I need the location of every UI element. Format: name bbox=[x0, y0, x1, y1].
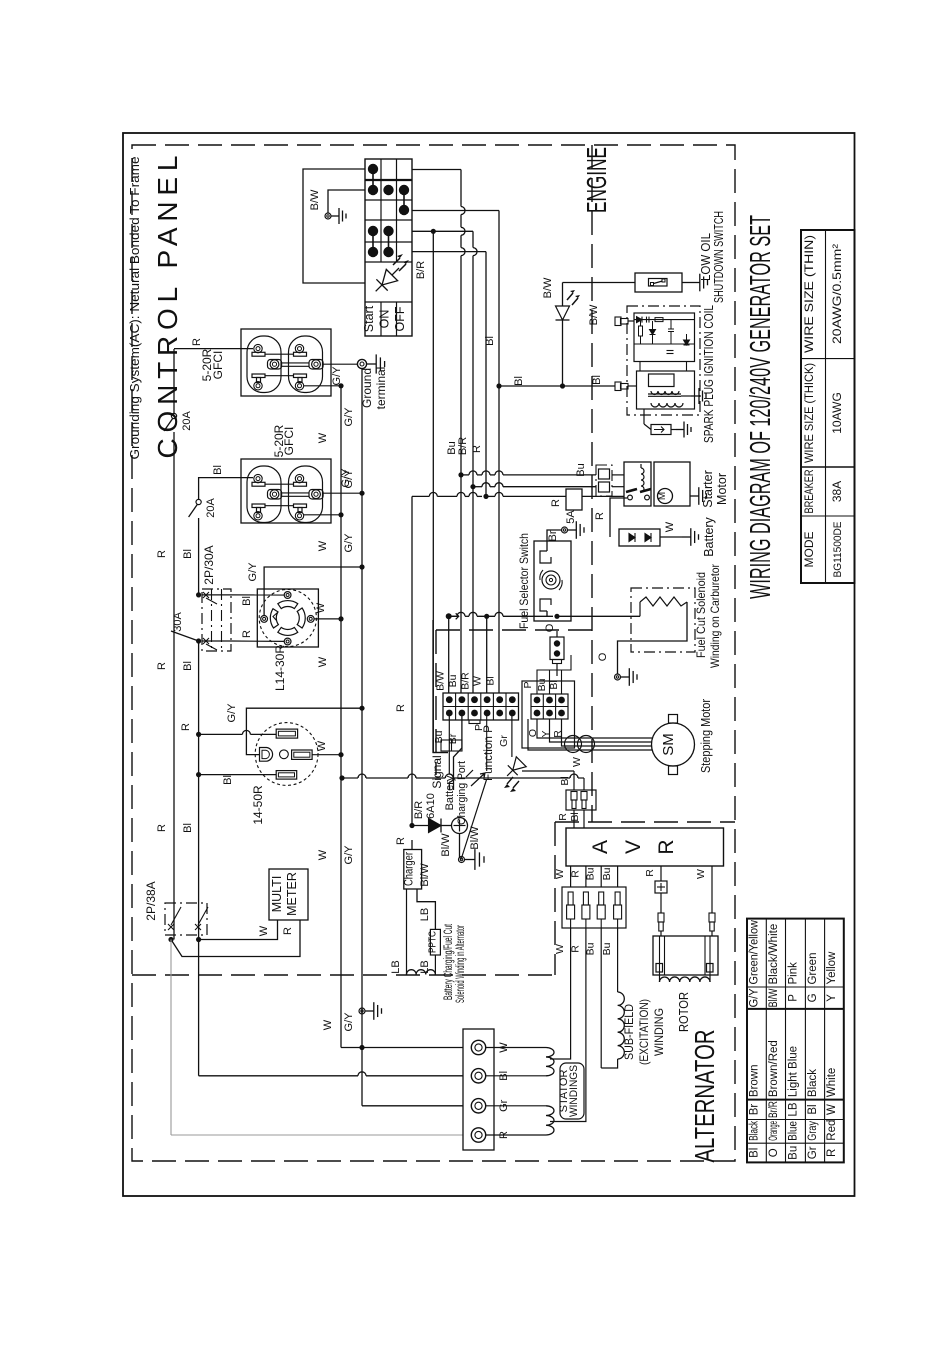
svg-text:Function P: Function P bbox=[481, 725, 495, 781]
svg-text:OFF: OFF bbox=[393, 306, 407, 331]
alternator dashed separator bbox=[132, 974, 555, 976]
svg-text:R: R bbox=[471, 445, 483, 453]
svg-text:R: R bbox=[550, 499, 562, 507]
B/W wire down to connector bbox=[448, 616, 450, 693]
sheet frame bbox=[123, 133, 855, 1196]
coil core ground bbox=[681, 395, 691, 397]
svg-text:W: W bbox=[472, 676, 484, 686]
svg-text:LOW OIL: LOW OIL bbox=[699, 233, 713, 281]
svg-text:Green: Green bbox=[807, 953, 819, 985]
svg-text:GFCI: GFCI bbox=[282, 427, 296, 456]
svg-text:Y: Y bbox=[540, 730, 552, 737]
svg-text:WIRING DIAGRAM OF 120/240V GEN: WIRING DIAGRAM OF 120/240V GENERATOR SET bbox=[745, 215, 777, 599]
svg-text:R: R bbox=[180, 723, 192, 731]
switch B/W ground stub bbox=[328, 190, 365, 213]
receptacle 14-50R bbox=[255, 723, 318, 786]
starter connector bbox=[596, 465, 612, 496]
svg-text:MODE: MODE bbox=[802, 532, 816, 568]
CDI unit box bbox=[634, 313, 695, 362]
svg-text:LB: LB bbox=[787, 1102, 799, 1116]
R wire to charger bbox=[411, 496, 413, 825]
sub-field winding bbox=[600, 928, 602, 1068]
svg-text:W: W bbox=[317, 540, 329, 551]
14-50R neutral bbox=[312, 754, 341, 756]
svg-text:Battery Charging/Fuel Cut: Battery Charging/Fuel Cut bbox=[443, 924, 455, 1000]
svg-text:Black/White: Black/White bbox=[768, 924, 780, 985]
svg-text:G/Y: G/Y bbox=[247, 562, 259, 582]
Bl bus wire bbox=[198, 477, 200, 500]
svg-text:G/Y: G/Y bbox=[343, 533, 355, 553]
svg-text:Bu: Bu bbox=[585, 867, 597, 880]
svg-text:Bu: Bu bbox=[536, 678, 548, 691]
svg-text:5A: 5A bbox=[565, 510, 577, 524]
svg-text:2P/30A: 2P/30A bbox=[202, 545, 216, 584]
svg-text:Battery: Battery bbox=[444, 775, 456, 810]
switch contacts bbox=[368, 164, 378, 174]
function P arrow bbox=[486, 716, 488, 771]
L14-30R blade slots bbox=[278, 601, 298, 609]
svg-text:W: W bbox=[554, 869, 566, 879]
svg-text:Charging Port: Charging Port bbox=[456, 761, 468, 825]
B/R wire from switch bbox=[412, 230, 429, 232]
R bus wire bbox=[173, 349, 175, 413]
AVR box bbox=[566, 828, 724, 866]
fuse 5A bbox=[566, 489, 582, 510]
svg-text:White: White bbox=[826, 1068, 838, 1097]
svg-text:SPARK PLUG IGNITION COIL: SPARK PLUG IGNITION COIL bbox=[702, 305, 716, 443]
14-50R ground wire bbox=[246, 708, 362, 754]
coil input connectors bbox=[615, 317, 621, 326]
svg-text:Grounding System(AC): Netural: Grounding System(AC): Netural Bonded To … bbox=[127, 157, 142, 460]
signal bracket bbox=[433, 620, 448, 753]
svg-text:Bl/W: Bl/W bbox=[440, 833, 452, 857]
meter wires bbox=[199, 920, 278, 940]
svg-text:R: R bbox=[156, 824, 168, 832]
rotor coil bbox=[659, 975, 661, 982]
svg-text:20A: 20A bbox=[205, 498, 217, 518]
svg-text:Stepping Motor: Stepping Motor bbox=[699, 699, 713, 773]
svg-text:20A: 20A bbox=[181, 411, 193, 431]
svg-text:Solenoid Winding in Alternator: Solenoid Winding in Alternator bbox=[455, 925, 467, 1003]
CDI internals bbox=[634, 319, 695, 321]
stator windings label bbox=[560, 1063, 584, 1119]
charger bbox=[404, 850, 422, 890]
AVR output connector bbox=[562, 887, 626, 928]
selector knob bbox=[542, 571, 560, 589]
selector contacts bbox=[540, 551, 551, 563]
svg-text:Bl: Bl bbox=[182, 549, 194, 559]
svg-text:W: W bbox=[695, 869, 707, 879]
svg-text:METER: METER bbox=[285, 872, 299, 916]
svg-text:Charger: Charger bbox=[404, 852, 416, 886]
stepping motor wire bundle bbox=[537, 719, 652, 738]
stator terminal block bbox=[463, 1029, 494, 1150]
svg-text:Br/R: Br/R bbox=[768, 1101, 780, 1118]
svg-text:ALTERNATOR: ALTERNATOR bbox=[689, 1030, 720, 1163]
svg-text:WIRE SIZE (THICK): WIRE SIZE (THICK) bbox=[802, 363, 816, 463]
svg-text:Bu: Bu bbox=[575, 463, 587, 476]
connector top stubs bbox=[536, 688, 538, 694]
svg-text:Black: Black bbox=[807, 1069, 819, 1097]
stepping motor connector bbox=[522, 681, 575, 748]
svg-text:R: R bbox=[191, 338, 203, 346]
spark plug bbox=[643, 409, 645, 424]
wire to stator Bl bbox=[198, 940, 200, 1076]
svg-text:B/R: B/R bbox=[415, 261, 427, 279]
GFCI1 neutral to W bus bbox=[304, 385, 341, 387]
svg-text:Red: Red bbox=[826, 1120, 838, 1141]
selector ground bbox=[547, 530, 561, 551]
charging winding coil bbox=[407, 970, 436, 975]
svg-text:SUB-FIELD: SUB-FIELD bbox=[622, 1004, 636, 1060]
svg-text:R: R bbox=[241, 630, 253, 638]
breaker 2P/38A bbox=[165, 903, 207, 935]
svg-text:Bl: Bl bbox=[241, 596, 253, 606]
W wire down to connector col4 bbox=[484, 614, 489, 619]
svg-text:R: R bbox=[395, 704, 407, 712]
R bus to GFCI1 bbox=[174, 348, 253, 350]
svg-text:W: W bbox=[571, 757, 583, 767]
fuel cut solenoid box bbox=[631, 588, 695, 652]
svg-text:G/Y: G/Y bbox=[343, 469, 355, 489]
function P to ground diagonal bbox=[462, 779, 487, 858]
ignition switch block bbox=[365, 159, 412, 336]
svg-text:Brown/Red: Brown/Red bbox=[768, 1040, 780, 1097]
rotor brush block bbox=[653, 936, 718, 975]
ground terminal bbox=[357, 359, 366, 368]
GFCI receptacle 1 (5-20R) bbox=[241, 329, 331, 396]
svg-text:Bl/W: Bl/W bbox=[419, 863, 431, 887]
svg-text:Bu: Bu bbox=[601, 867, 613, 880]
svg-text:Bl: Bl bbox=[222, 775, 234, 785]
svg-text:Br: Br bbox=[547, 530, 559, 541]
signal wires bbox=[448, 716, 450, 774]
svg-text:A: A bbox=[589, 840, 612, 854]
svg-text:Fuel Cut Solenoid: Fuel Cut Solenoid bbox=[694, 572, 708, 658]
R branch through 5A fuse bbox=[412, 495, 429, 497]
svg-text:G/Y: G/Y bbox=[749, 988, 761, 1007]
svg-text:CONTROL PANEL: CONTROL PANEL bbox=[152, 156, 183, 459]
G/Y bus wire bbox=[361, 369, 363, 1106]
L14-30R wires bbox=[231, 594, 284, 596]
section dashed border outer box bbox=[132, 145, 735, 1161]
svg-text:R: R bbox=[655, 839, 678, 854]
L14-30R neutral wire bbox=[314, 618, 341, 620]
svg-text:R: R bbox=[552, 730, 564, 738]
signal inline connector bbox=[441, 740, 462, 751]
L14-30R terminal screws bbox=[284, 592, 291, 599]
B/R branch to starter relay bbox=[470, 484, 475, 489]
breaker 30A tap bbox=[171, 631, 199, 641]
svg-text:ENGINE: ENGINE bbox=[581, 147, 612, 213]
multi meter bbox=[269, 869, 308, 920]
svg-text:W: W bbox=[258, 925, 270, 936]
signal wire from switch bbox=[433, 231, 448, 752]
svg-text:W: W bbox=[315, 602, 327, 613]
W bus wire bbox=[340, 386, 342, 1048]
svg-text:Bl: Bl bbox=[807, 1104, 819, 1114]
svg-text:R: R bbox=[156, 550, 168, 558]
svg-text:R: R bbox=[644, 869, 656, 877]
battery feed R bbox=[610, 498, 627, 537]
selector connector bbox=[550, 637, 564, 660]
svg-text:Gray: Gray bbox=[807, 1121, 819, 1141]
breaker 20A #1 bbox=[171, 413, 176, 418]
svg-text:30A: 30A bbox=[172, 612, 184, 632]
svg-text:2P/38A: 2P/38A bbox=[144, 881, 158, 920]
svg-text:Bl: Bl bbox=[569, 812, 581, 821]
svg-text:LB: LB bbox=[390, 960, 402, 973]
Bl bus to GFCI2 bbox=[199, 477, 253, 479]
svg-text:G/Y: G/Y bbox=[331, 366, 343, 386]
low oil shutdown switch bbox=[635, 273, 682, 292]
B/W tap bbox=[446, 613, 452, 619]
svg-text:Bl/W: Bl/W bbox=[469, 826, 481, 850]
svg-text:R: R bbox=[569, 945, 581, 953]
svg-text:G/Y: G/Y bbox=[343, 845, 355, 865]
solenoid winding bbox=[640, 597, 687, 606]
bundle rings bbox=[565, 736, 582, 753]
svg-text:Bl: Bl bbox=[513, 376, 525, 386]
svg-text:B/W: B/W bbox=[309, 189, 321, 210]
svg-text:Bl: Bl bbox=[182, 823, 194, 833]
svg-text:W: W bbox=[554, 944, 566, 954]
svg-text:Brown: Brown bbox=[749, 1064, 761, 1097]
svg-text:G/Y: G/Y bbox=[343, 407, 355, 427]
wire color legend table bbox=[747, 919, 844, 1163]
svg-text:Fuel Selector Switch: Fuel Selector Switch bbox=[517, 533, 531, 629]
svg-text:L14-30R: L14-30R bbox=[273, 645, 287, 691]
svg-text:Bl: Bl bbox=[591, 375, 603, 385]
charging port ground wire bbox=[459, 834, 461, 858]
svg-text:Battery: Battery bbox=[702, 516, 716, 556]
svg-text:R: R bbox=[826, 1149, 838, 1157]
switch LED loop wire bbox=[303, 169, 365, 283]
svg-text:R: R bbox=[282, 927, 294, 935]
svg-text:Blue: Blue bbox=[787, 1121, 799, 1141]
svg-text:Br: Br bbox=[749, 1104, 761, 1116]
Gr wire from G/Y bbox=[362, 1105, 463, 1107]
svg-text:G/Y: G/Y bbox=[343, 1012, 355, 1032]
svg-text:GFCI: GFCI bbox=[211, 351, 225, 380]
svg-text:Yellow: Yellow bbox=[826, 951, 838, 985]
svg-text:Bu: Bu bbox=[787, 1146, 799, 1160]
battery charging port bbox=[452, 818, 468, 834]
function port connector bbox=[443, 693, 519, 720]
L14-30R ground wire bbox=[264, 567, 362, 616]
svg-text:O: O bbox=[768, 1148, 780, 1157]
svg-text:Orange: Orange bbox=[768, 1121, 780, 1141]
svg-text:G: G bbox=[807, 993, 819, 1002]
svg-text:terminal: terminal bbox=[374, 367, 388, 410]
svg-text:BREAKER: BREAKER bbox=[802, 469, 816, 513]
svg-text:P: P bbox=[522, 681, 534, 688]
Bl branch to ignition coil bbox=[496, 383, 501, 388]
Bu branch to starter relay bbox=[458, 472, 463, 477]
svg-text:W: W bbox=[317, 656, 329, 667]
stator winding coils bbox=[486, 1047, 546, 1049]
svg-text:B/W: B/W bbox=[435, 671, 447, 691]
engine LED B/W bbox=[562, 283, 564, 307]
svg-text:ROTOR: ROTOR bbox=[677, 992, 691, 1032]
fuel selector switch bbox=[534, 541, 571, 621]
W wire to terminal bbox=[362, 1047, 463, 1049]
coil windings bbox=[651, 391, 679, 395]
Bu wire from switch row1 bbox=[412, 169, 461, 171]
GFCI2 strap wire to G/Y bus bbox=[323, 492, 362, 494]
switch pilot LED bbox=[370, 262, 405, 297]
svg-text:Start: Start bbox=[362, 305, 376, 332]
AVR input connector bbox=[566, 790, 596, 810]
svg-text:R: R bbox=[557, 813, 569, 821]
wires to AVR bbox=[573, 771, 575, 790]
svg-text:Winding on Carburetor: Winding on Carburetor bbox=[708, 564, 722, 668]
14-50R R feed bbox=[196, 732, 201, 737]
control panel / engine dashed separator bbox=[591, 145, 593, 822]
svg-text:SHUTDOWN SWITCH: SHUTDOWN SWITCH bbox=[712, 211, 726, 303]
svg-text:10AWG: 10AWG bbox=[830, 392, 844, 434]
svg-text:38A: 38A bbox=[830, 481, 844, 502]
svg-text:Bl/W: Bl/W bbox=[768, 988, 780, 1007]
stepping motor bbox=[652, 723, 695, 766]
receptacle L14-30R bbox=[257, 589, 318, 647]
svg-text:W: W bbox=[317, 849, 329, 860]
svg-text:Motor: Motor bbox=[715, 473, 729, 505]
battery ground bbox=[660, 536, 682, 538]
charger output LB wires bbox=[406, 889, 408, 975]
wire to stator R bbox=[170, 940, 172, 1136]
dashed separator step bbox=[436, 629, 592, 631]
selector output O bbox=[546, 611, 548, 616]
svg-text:6A10: 6A10 bbox=[425, 793, 437, 819]
AVR outputs bbox=[570, 866, 572, 887]
svg-text:G/Y: G/Y bbox=[226, 703, 238, 723]
ignition coil box bbox=[637, 371, 695, 409]
solenoid return to ground bbox=[618, 602, 688, 674]
svg-text:Black: Black bbox=[749, 1121, 761, 1141]
svg-text:P: P bbox=[787, 994, 799, 1002]
R excitation wire bbox=[660, 866, 662, 881]
GFCI receptacle 2 (5-20R) bbox=[241, 459, 331, 523]
svg-text:Bl: Bl bbox=[484, 336, 496, 346]
GFCI2 neutral to W bus bbox=[304, 514, 341, 516]
CDI to coil links bbox=[639, 362, 641, 372]
svg-text:14-50R: 14-50R bbox=[251, 785, 265, 825]
svg-text:WINDINGS: WINDINGS bbox=[568, 1065, 580, 1117]
PPTC bbox=[430, 929, 440, 955]
svg-text:SM: SM bbox=[660, 733, 677, 756]
svg-text:Bl: Bl bbox=[182, 661, 194, 671]
svg-text:B/W: B/W bbox=[588, 304, 600, 325]
starter motor bbox=[654, 462, 690, 506]
svg-text:R: R bbox=[594, 512, 606, 520]
W rotor wire bbox=[711, 866, 713, 913]
14-50R Bl feed bbox=[196, 772, 201, 777]
svg-text:Gr: Gr bbox=[807, 1146, 819, 1159]
svg-text:Br: Br bbox=[447, 733, 459, 744]
R wire drop bbox=[412, 251, 486, 253]
svg-text:W: W bbox=[664, 521, 676, 532]
svg-text:(EXCITATION): (EXCITATION) bbox=[637, 999, 651, 1065]
svg-text:Bl: Bl bbox=[749, 1148, 761, 1158]
svg-text:W: W bbox=[826, 1104, 838, 1115]
svg-text:Pink: Pink bbox=[787, 962, 799, 985]
svg-text:Gr: Gr bbox=[498, 735, 510, 747]
svg-text:V: V bbox=[622, 840, 645, 854]
svg-text:M: M bbox=[657, 492, 668, 500]
svg-text:B/W: B/W bbox=[542, 277, 554, 298]
Bl wire from switch bbox=[412, 210, 499, 212]
svg-text:O: O bbox=[597, 652, 609, 661]
svg-text:PPTC: PPTC bbox=[427, 931, 438, 953]
svg-text:O: O bbox=[544, 623, 556, 632]
svg-text:Bu: Bu bbox=[601, 942, 613, 955]
battery bbox=[619, 529, 660, 546]
svg-text:BG11500DE: BG11500DE bbox=[832, 522, 844, 578]
svg-text:MULTI: MULTI bbox=[270, 876, 284, 913]
svg-text:Green/Yellow: Green/Yellow bbox=[749, 919, 761, 984]
svg-text:ON: ON bbox=[378, 310, 392, 329]
svg-text:Bl: Bl bbox=[559, 776, 571, 785]
svg-text:R: R bbox=[395, 837, 407, 845]
svg-text:Bl: Bl bbox=[212, 465, 224, 475]
breaker 2P/30A bbox=[202, 589, 231, 651]
svg-text:20AWG/0.5mm²: 20AWG/0.5mm² bbox=[830, 244, 844, 344]
svg-text:Y: Y bbox=[826, 994, 838, 1002]
svg-text:W: W bbox=[317, 432, 329, 443]
svg-text:LB: LB bbox=[419, 908, 431, 921]
14-50R slots bbox=[276, 729, 297, 738]
diode 6A10 bbox=[409, 823, 414, 828]
svg-text:WINDING: WINDING bbox=[652, 1008, 666, 1056]
spec table bbox=[801, 230, 855, 583]
GFCI1 strap wire bbox=[323, 363, 358, 365]
svg-text:B/R: B/R bbox=[457, 437, 469, 455]
breaker 20A #2 bbox=[196, 499, 201, 504]
svg-text:R: R bbox=[156, 662, 168, 670]
svg-text:W: W bbox=[316, 740, 328, 751]
svg-text:Light Blue: Light Blue bbox=[787, 1046, 799, 1097]
svg-text:B/R: B/R bbox=[460, 672, 472, 690]
starter motor ground bbox=[690, 495, 699, 497]
svg-text:R: R bbox=[569, 870, 581, 878]
svg-text:Signal: Signal bbox=[430, 755, 444, 788]
svg-text:Bu: Bu bbox=[433, 730, 445, 743]
low oil wire B/W bbox=[563, 282, 636, 284]
ignition coil outer box bbox=[627, 306, 700, 415]
W R wires to stator bbox=[550, 928, 571, 1059]
frame ground on G/Y bbox=[359, 1008, 365, 1014]
starter relay bbox=[624, 462, 651, 506]
svg-text:Starter: Starter bbox=[701, 470, 715, 508]
svg-text:B/R: B/R bbox=[413, 801, 425, 819]
svg-text:W: W bbox=[322, 1019, 334, 1030]
svg-text:WIRE SIZE (THIN): WIRE SIZE (THIN) bbox=[802, 235, 816, 353]
